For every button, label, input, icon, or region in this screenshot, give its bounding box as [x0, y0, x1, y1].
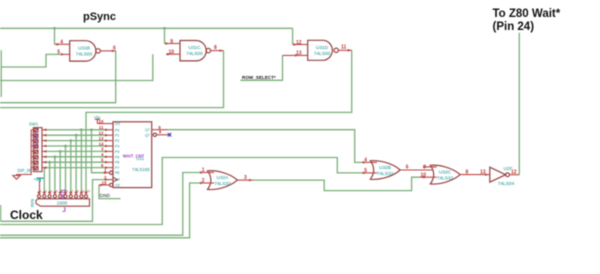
inverter U2F body — [490, 167, 506, 182]
arrow IC pin13 — [105, 139, 108, 142]
stub IC pin15 CE — [99, 184, 110, 186]
wire U31B pin5 feed — [1, 50, 61, 97]
stub U32C pin10 — [420, 176, 437, 178]
svg-text:74LS165: 74LS165 — [132, 167, 150, 172]
stub U31C out — [211, 50, 224, 52]
svg-text:5: 5 — [57, 50, 60, 56]
svg-text:74LS00: 74LS00 — [186, 51, 203, 57]
wire U31C pin10 feed — [0, 54, 153, 80]
arrow U32A pin2 — [200, 182, 203, 185]
arrows switch pins pointing left — [43, 128, 46, 169]
wire U32A out to U32C pin10 — [253, 177, 420, 190]
junction top bus x164.5 — [163, 27, 166, 30]
wire switch row3 / P2 — [45, 140, 105, 142]
arrow IC pin1 — [104, 171, 107, 174]
arrow IC pin4 — [105, 155, 108, 158]
junction row4 — [64, 145, 67, 148]
svg-text:P6: P6 — [115, 161, 119, 165]
svg-text:P4: P4 — [115, 150, 119, 154]
wire ROW_SELECT* stub — [240, 55, 282, 80]
wire switch row8 / P7 — [45, 167, 105, 169]
stub IC pin1 PE — [103, 172, 110, 174]
svg-text:RP9: RP9 — [30, 198, 35, 207]
svg-text:U32C: U32C — [439, 169, 452, 175]
wire switch row4 / P3 — [45, 145, 105, 147]
stub IC pin3 — [105, 150, 114, 152]
svg-text:U31D: U31D — [316, 45, 329, 51]
stub IC pin9 Q7 — [152, 129, 168, 131]
svg-text:8: 8 — [466, 169, 469, 175]
rp pin arrows — [38, 192, 88, 195]
wire U31C output net — [0, 51, 224, 108]
svg-text:Q7: Q7 — [145, 128, 150, 132]
stub U32A pin1 — [200, 172, 214, 174]
svg-text:WAIT_CNT: WAIT_CNT — [123, 154, 145, 159]
stub U31D pin13 — [283, 54, 308, 56]
stub IC pin13 — [105, 140, 114, 142]
stub U32B out to U32C pin9 — [400, 167, 436, 170]
arrow U31B pin5 — [61, 53, 64, 56]
wire Q7 to U32B pin4 — [168, 130, 363, 163]
svg-text:P3: P3 — [115, 145, 119, 149]
svg-text:U32A: U32A — [217, 175, 230, 181]
svg-text:CE: CE — [115, 184, 121, 188]
stub IC pin5 — [105, 161, 114, 163]
stub IC pin12 — [105, 134, 114, 136]
arrow U31C out — [220, 49, 223, 52]
svg-text:DIP_08: DIP_08 — [18, 168, 33, 173]
svg-text:74LS32: 74LS32 — [214, 181, 231, 187]
arrow U31B pin4 — [57, 43, 60, 46]
svg-text:To Z80 Wait*: To Z80 Wait* — [493, 8, 561, 20]
wire inverter out to Z80 — [518, 33, 520, 175]
or U32B body — [370, 161, 400, 180]
arrow IC pin5 — [105, 161, 108, 164]
svg-text:(Pin 24): (Pin 24) — [493, 21, 535, 33]
wire switch row5 / P4 — [45, 150, 105, 152]
stub IC pin2 CP — [105, 179, 113, 181]
arrow U32A out — [249, 179, 252, 182]
wire drop row8 to RP pin2 — [43, 168, 45, 195]
svg-text:10: 10 — [87, 189, 91, 193]
svg-text:P1: P1 — [115, 134, 119, 138]
wire PE feed from P0 row — [92, 130, 104, 173]
svg-text:ROW_SELECT*: ROW_SELECT* — [242, 75, 276, 80]
svg-text:14: 14 — [98, 141, 104, 146]
arrow U31B out — [112, 50, 115, 53]
junction row6 — [54, 155, 57, 158]
nc marker Q7bar — [168, 133, 171, 136]
wire switch row2 / P1 — [45, 134, 105, 136]
stub U31C pin9 — [165, 43, 181, 45]
svg-text:+5v: +5v — [34, 177, 42, 182]
wire loop A to U32B pin5 — [0, 158, 362, 225]
svg-text:74LS32: 74LS32 — [377, 171, 394, 177]
rp body — [36, 199, 90, 206]
or U32A body — [208, 171, 238, 190]
svg-text:3: 3 — [244, 175, 247, 181]
stub IC pin4 — [105, 156, 114, 158]
svg-text:3: 3 — [50, 189, 52, 193]
ground symbol — [13, 176, 20, 180]
stub U31B out — [100, 50, 115, 52]
stub IC pin6 — [105, 167, 114, 169]
arrow U31D pin13 — [295, 54, 298, 57]
wire GND stub from CE — [99, 185, 121, 199]
svg-text:8: 8 — [214, 45, 217, 51]
svg-text:12: 12 — [98, 131, 104, 136]
purple labels — [34, 132, 145, 214]
svg-text:74LS00: 74LS00 — [314, 51, 331, 57]
wire pSync top bus — [0, 27, 293, 29]
nand U31D body — [308, 40, 333, 60]
ic U11 box — [113, 122, 152, 188]
svg-text:4: 4 — [56, 189, 58, 193]
svg-text:U32B: U32B — [379, 165, 391, 171]
svg-text:SW1: SW1 — [29, 122, 39, 127]
svg-text:P5: P5 — [115, 155, 119, 159]
wire drop to U31D pin12 — [292, 28, 294, 44]
svg-text:GND: GND — [100, 193, 111, 198]
rp pin number digits — [40, 189, 91, 193]
junction top bus x54.5 — [53, 27, 56, 30]
svg-text:74LS32: 74LS32 — [437, 175, 454, 181]
arrow U32C pin10 — [423, 176, 426, 179]
stub U2F out — [509, 174, 519, 176]
wire drop row6 to RP pin4 — [54, 157, 56, 195]
svg-text:1: 1 — [40, 189, 42, 193]
nand U31C body — [180, 41, 206, 61]
red pin numbers — [57, 39, 516, 186]
svg-text:13: 13 — [480, 170, 486, 176]
stub U31D pin12 — [293, 44, 308, 46]
arrow IC pin3 — [105, 150, 108, 153]
gate name/value labels (teal) — [18, 45, 515, 207]
wire drop to U31C pin9 — [164, 28, 166, 43]
stub U31B pin4 — [55, 43, 70, 45]
stub IC pin7 Q7bar — [157, 134, 168, 136]
nand U31B body — [70, 41, 96, 61]
wire drop row7 to RP pin3 — [49, 162, 51, 195]
svg-text:J: J — [63, 208, 66, 214]
arrow U31D pin12 — [294, 43, 297, 46]
svg-text:11: 11 — [99, 125, 104, 130]
svg-text:PE: PE — [115, 171, 120, 175]
pin CE bubble — [110, 183, 113, 186]
stub U32A pin2 — [200, 182, 214, 184]
svg-text:2: 2 — [45, 189, 47, 193]
stub U32B pin5 — [362, 172, 377, 174]
wire U31D output net to RP pin10 — [86, 50, 352, 194]
switch SW1 body — [33, 128, 42, 172]
arrow U32B pin5 — [363, 172, 366, 175]
svg-text:Clock: Clock — [10, 208, 43, 222]
svg-text:74LS04: 74LS04 — [498, 181, 515, 187]
wire drop row1 to RP pin9 — [80, 130, 82, 195]
stub U31B pin5 — [61, 53, 70, 55]
svg-text:CP: CP — [115, 178, 121, 182]
svg-text:1500: 1500 — [57, 201, 68, 207]
svg-text:12: 12 — [296, 40, 302, 46]
arrow IC pin15 — [100, 184, 103, 187]
svg-text:pSync: pSync — [83, 11, 116, 23]
svg-text:11: 11 — [341, 45, 347, 51]
arrow IC pin2 — [105, 178, 108, 181]
svg-text:10: 10 — [98, 119, 104, 124]
switch left pin bus — [17, 130, 34, 176]
junction row1 x81.4 — [80, 128, 83, 131]
arrow IC pin12 — [105, 134, 108, 137]
stub IC pin14 — [105, 145, 114, 147]
arrows RP pins pointing down — [38, 191, 88, 194]
svg-text:74LS00: 74LS00 — [76, 52, 93, 58]
stub U32B pin4 — [362, 161, 377, 163]
svg-text:9: 9 — [82, 189, 84, 193]
svg-text:P0: P0 — [115, 128, 119, 132]
arrow U31D out — [348, 49, 351, 52]
svg-text:P7: P7 — [115, 166, 119, 170]
arrow Q7 tick — [159, 131, 161, 134]
arrow U2F in — [485, 173, 488, 176]
wire drop row5 to RP pin5 — [59, 151, 61, 194]
wire loop B to U32A pin1 — [0, 173, 200, 236]
arrow U31C pin10 — [167, 53, 170, 56]
wire loop C to U32A pin2 — [0, 183, 200, 238]
stub U32A out — [237, 179, 253, 181]
+5V flag for RP pin1 — [39, 182, 42, 195]
svg-text:SW_DIP: SW_DIP — [34, 132, 39, 148]
arrow U32C pin9 — [423, 166, 426, 169]
stub IC pin11 — [105, 129, 114, 131]
wire switch row1 / P0 — [45, 129, 105, 131]
arrow IC pin6 — [105, 166, 108, 169]
clock wedge CP — [113, 177, 117, 182]
svg-text:DS: DS — [115, 122, 121, 126]
wire clock net — [1, 180, 105, 222]
svg-text:6: 6 — [66, 189, 68, 193]
pin Q7bar bubble — [153, 133, 156, 136]
junction row1 x91.5 — [90, 128, 93, 131]
stub U31D out — [338, 49, 351, 51]
svg-text:Q7: Q7 — [145, 134, 150, 138]
wire switch row6 / P5 — [45, 156, 105, 158]
svg-text:12: 12 — [511, 169, 517, 175]
svg-text:4: 4 — [60, 40, 63, 46]
svg-text:7: 7 — [72, 189, 74, 193]
stub IC pin10 DS with +5 hook — [95, 119, 113, 123]
wire U31B output net — [0, 51, 116, 103]
junction row5 — [59, 150, 62, 153]
stub U31C pin10 — [166, 53, 180, 55]
switch right pins — [42, 130, 45, 168]
pin PE bubble — [110, 171, 113, 174]
wire switch row7 / P6 — [45, 161, 105, 163]
wire drop to U31B pin4 — [54, 28, 56, 44]
wire drop row3 to RP pin7 — [70, 141, 72, 195]
junction row2 — [75, 134, 78, 137]
svg-text:8: 8 — [77, 189, 79, 193]
svg-text:U31C: U31C — [188, 45, 201, 51]
junction row3 — [69, 139, 72, 142]
wire drop row2 to RP pin8 — [75, 135, 77, 195]
stub U32C out to U2F in — [460, 174, 490, 176]
arrow IC pin14 — [105, 145, 108, 148]
arrow IC pin11 — [105, 128, 108, 131]
or U32C body — [430, 165, 460, 184]
switch elements — [35, 129, 38, 132]
svg-text:13: 13 — [98, 136, 104, 141]
arrow U32B pin4 — [363, 161, 366, 164]
svg-text:6: 6 — [406, 165, 409, 171]
svg-text:U31B: U31B — [78, 46, 90, 52]
arrow U31C pin9 — [166, 42, 169, 45]
wire drop row4 to RP pin6 — [65, 146, 67, 195]
rp pin circles — [37, 195, 40, 198]
svg-text:9: 9 — [170, 39, 173, 45]
junction row7 — [48, 161, 51, 164]
arrow U32A pin1 — [200, 171, 203, 174]
svg-text:P2: P2 — [115, 139, 119, 143]
IC pin names (teal tiny) — [115, 122, 150, 187]
